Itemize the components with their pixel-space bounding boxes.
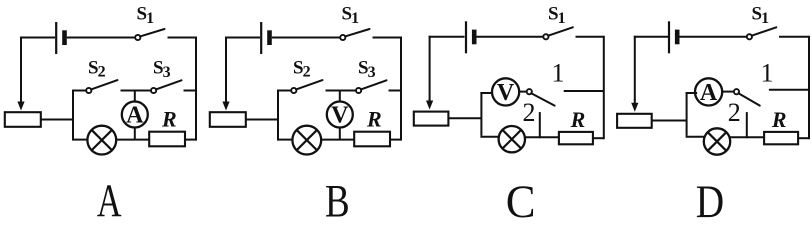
wire resistor R to right rail (circuit D) (798, 137, 809, 139)
contact 1 wire to right rail (circuit C) (564, 90, 604, 92)
svg-text:R: R (161, 107, 177, 132)
svg-text:D: D (696, 176, 724, 218)
wire left rail top corner to meter (circuit C) (480, 92, 492, 94)
wire S3 fixed contact to right rail (circuit A) (184, 90, 197, 92)
svg-text:R: R (570, 107, 586, 132)
wire rheostat to left rail node (circuit D) (652, 120, 687, 122)
contact 2 wire down to bottom branch (circuit D) (746, 112, 748, 138)
wire battery to switch S1 (circuit B) (272, 37, 340, 39)
switch S1 (circuit D) (747, 27, 776, 39)
wire junction down to meter (circuit A) (134, 91, 136, 102)
resistor R (circuit A) (149, 132, 185, 147)
wire resistor R to right rail (circuit B) (390, 139, 401, 141)
wire S1 fixed contact to top-right corner (circuit D) (779, 36, 809, 38)
svg-text:A: A (126, 103, 144, 129)
switch S1 (circuit A) (135, 29, 164, 40)
meter A (circuit D) (695, 78, 722, 106)
wire S2 contact to S3 with junction node (circuit A) (121, 90, 152, 92)
wire S1 fixed contact to top-right corner (circuit B) (373, 37, 402, 39)
svg-text:A: A (97, 175, 122, 218)
svg-text:R: R (771, 107, 787, 132)
battery (circuit D) (669, 21, 677, 53)
battery (circuit B) (261, 22, 269, 54)
svg-text:A: A (700, 80, 718, 106)
rheostat (slide resistor) (circuit C) (414, 112, 449, 126)
lamp (circuit B) (292, 126, 321, 155)
svg-text:C: C (506, 176, 536, 218)
selector switch lever (circuit D) (734, 89, 760, 106)
wire left rail (circuit B) (277, 90, 279, 141)
wire left rail bottom corner to lamp (circuit D) (686, 136, 705, 138)
slider arrow of rheostat (circuit D) (631, 99, 638, 112)
wire S1 fixed contact to top-right corner (circuit A) (168, 37, 197, 39)
svg-text:1: 1 (552, 59, 565, 88)
switch S3 (circuit B) (356, 80, 387, 93)
wire left rail to lamp (circuit A) (73, 139, 87, 141)
wire right rail (circuit C) (603, 36, 605, 139)
selector switch lever (circuit C) (527, 89, 555, 106)
wire left rail top corner to meter (circuit D) (686, 92, 698, 94)
meter V (circuit B) (327, 102, 353, 129)
wire S3 fixed contact to right rail (circuit B) (389, 90, 402, 92)
wire battery to switch S1 (circuit D) (680, 36, 747, 38)
wire meter to selector pivot (circuit C) (519, 91, 527, 93)
wire meter to selector pivot (circuit D) (722, 91, 734, 93)
wire left rail (circuit A) (72, 90, 74, 141)
wire left rail to switch S2 (circuit B) (278, 90, 291, 92)
resistor R (circuit C) (559, 132, 593, 144)
wire rheostat to left rail node (circuit B) (246, 119, 278, 121)
wire top-left: left edge down-lead and top conductor (circuit A) (20, 37, 55, 102)
contact 1 wire to right rail (circuit D) (769, 89, 809, 91)
wire top-left: left edge down-lead and top conductor (circuit C) (429, 36, 465, 100)
resistor R (circuit D) (764, 132, 798, 144)
svg-text:V: V (331, 103, 349, 129)
rheostat (slide resistor) (circuit D) (617, 114, 652, 128)
svg-text:2: 2 (728, 98, 741, 127)
wire left rail bottom corner to lamp (circuit C) (480, 136, 499, 138)
battery (circuit A) (56, 22, 64, 54)
wire rheostat to left rail node (circuit C) (448, 117, 481, 119)
switch S1 (circuit C) (543, 27, 572, 39)
slider arrow of rheostat (circuit B) (222, 100, 229, 111)
wire resistor R to right rail (circuit C) (593, 137, 604, 139)
wire resistor R to right rail (circuit A) (185, 139, 196, 141)
switch S2 (circuit B) (291, 80, 322, 93)
wire S2 contact to S3 with junction node (circuit B) (326, 90, 357, 92)
wire meter down to bottom branch (circuit B) (339, 128, 341, 140)
wire right rail (circuit A) (195, 37, 197, 141)
wire left rail to switch S2 (circuit A) (73, 90, 86, 92)
wire lamp to resistor R with contact-2 junction (circuit D) (730, 136, 765, 138)
wire junction down to meter (circuit B) (339, 91, 341, 102)
wire battery to switch S1 (circuit A) (67, 37, 135, 39)
switch S3 (circuit A) (151, 80, 182, 93)
wire left rail (circuit C) (480, 92, 482, 136)
wire rheostat to left rail node (circuit A) (41, 119, 73, 121)
wire meter down to bottom branch (circuit A) (134, 128, 136, 140)
rheostat (slide resistor) (circuit B) (210, 112, 246, 127)
svg-text:V: V (497, 80, 515, 106)
meter A (circuit A) (122, 102, 148, 129)
battery (circuit C) (466, 21, 474, 53)
lamp (circuit D) (704, 128, 730, 154)
switch S2 (circuit A) (86, 80, 117, 93)
svg-text:R: R (366, 107, 382, 132)
slider arrow of rheostat (circuit C) (426, 99, 433, 110)
wire top-left: left edge down-lead and top conductor (circuit B) (225, 37, 260, 102)
lamp (circuit C) (499, 126, 525, 152)
contact 2 wire down to bottom branch (circuit C) (539, 112, 541, 138)
resistor R (circuit B) (354, 132, 390, 147)
wire lamp to resistor R (circuit A) (116, 139, 149, 141)
wire left rail (circuit D) (686, 92, 688, 136)
wire left rail to lamp (circuit B) (278, 139, 292, 141)
wire S1 fixed contact to top-right corner (circuit C) (576, 36, 604, 38)
meter V (circuit C) (492, 78, 519, 106)
wire battery to switch S1 (circuit C) (477, 36, 544, 38)
wire lamp to resistor R with contact-2 junction (circuit C) (524, 136, 559, 138)
wire top-left: left edge down-lead and top conductor (circuit D) (634, 36, 670, 100)
wire lamp to resistor R (circuit B) (321, 139, 354, 141)
wire right rail (circuit B) (400, 37, 402, 141)
switch S1 (circuit B) (340, 29, 369, 40)
slider arrow of rheostat (circuit A) (17, 100, 24, 111)
wire right rail (circuit D) (808, 36, 810, 139)
lamp (circuit A) (87, 126, 116, 155)
svg-text:B: B (325, 176, 350, 218)
svg-text:2: 2 (523, 98, 536, 127)
rheostat (slide resistor) (circuit A) (5, 112, 41, 127)
svg-text:1: 1 (761, 59, 774, 88)
